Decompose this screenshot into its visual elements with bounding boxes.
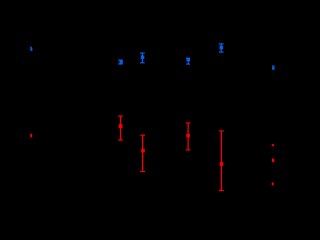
blue errorbar E4 [219, 44, 224, 52]
red errorbar E2 [140, 135, 145, 172]
blue point P5 (right, small) [272, 65, 275, 69]
blue errorbar E1 [118, 60, 123, 64]
blue series [30, 44, 275, 70]
red point P0 (left edge, small) [30, 134, 32, 138]
red point P5c (right) [272, 182, 274, 185]
red point P5a (right) [272, 144, 274, 146]
blue errorbar E3 [186, 58, 190, 64]
blue point P0 (left edge, partial) [30, 47, 32, 51]
blue errorbar E2 [140, 53, 145, 63]
red point P5b (right) [272, 159, 274, 163]
red errorbar E4 [219, 131, 224, 191]
red errorbar E1 [118, 116, 123, 140]
red errorbar E3 [186, 123, 191, 150]
red series [30, 116, 274, 190]
